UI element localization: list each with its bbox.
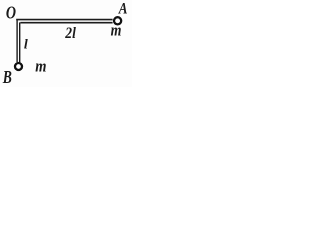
svg-text:m: m [35, 58, 46, 76]
ball m at B [15, 63, 22, 70]
rod OA (horizontal, length 2l): bottom line [20, 22, 112, 24]
rod OB (vertical, length l): right line [19, 22, 21, 62]
svg-text:2l: 2l [64, 25, 76, 42]
svg-text:m: m [111, 21, 122, 40]
rod OA (horizontal, length 2l): top line [16, 19, 112, 21]
rod OB (vertical, length l): left line [16, 19, 18, 62]
svg-text:l: l [24, 38, 28, 53]
svg-text:A: A [118, 0, 128, 17]
ball m at A [114, 17, 121, 24]
svg-text:O: O [6, 4, 16, 23]
svg-text:B: B [2, 68, 12, 87]
background [0, 0, 132, 87]
